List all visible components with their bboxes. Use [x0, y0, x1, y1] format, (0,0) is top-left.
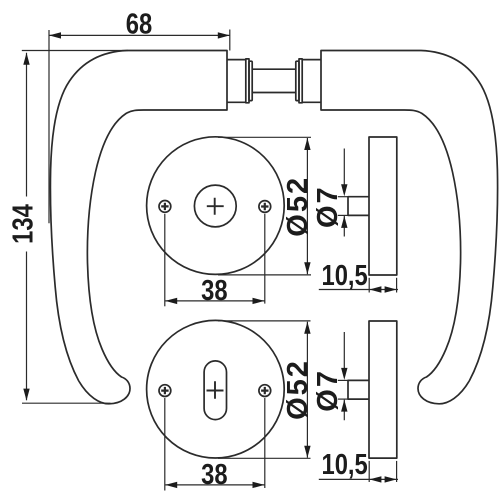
rose1 dia52 arrow down: [304, 262, 310, 274]
dim 134 extension bottom: [22, 402, 111, 404]
rose2 dia52 arrow up: [304, 322, 310, 334]
rose1 dim38 extension right: [264, 214, 266, 304]
dim 134 line: [26, 53, 28, 401]
side2 dia7 arrow up: [341, 400, 347, 412]
left neck cylinder: [227, 60, 246, 103]
svg-text:10,5: 10,5: [321, 448, 367, 481]
dim 134 extension top: [22, 50, 128, 52]
rose 2 keyhole cross: [207, 381, 224, 399]
side2 dim105 arrow left: [369, 476, 381, 482]
side2 dia7 arrow lines: [343, 332, 345, 420]
side2 dim105 arrow right: [385, 476, 397, 482]
rose 1 outer circle: [147, 137, 285, 275]
rose2 dia52 extension top: [218, 320, 311, 322]
dim 68 line: [49, 34, 230, 36]
rose2 dim38 arrow right: [253, 482, 265, 488]
rose2 dim38 line: [165, 484, 264, 486]
side view 2 neck stub: [348, 380, 369, 399]
rose2 dim38 arrow left: [165, 482, 177, 488]
side2 dim105 extension left: [368, 461, 370, 482]
rose 2 keyhole escutcheon: [204, 361, 226, 420]
rose1 dia52 extension top: [218, 136, 311, 138]
side2 dia7 arrow down: [341, 368, 347, 380]
side view 1 neck stub: [348, 197, 369, 216]
rose1 dia52 arrow up: [304, 138, 310, 150]
rose1 dim38 arrow right: [253, 298, 265, 304]
svg-text:68: 68: [126, 7, 152, 40]
side view 2 rose plate: [369, 321, 397, 458]
svg-text:10,5: 10,5: [321, 259, 367, 292]
rose 1 left screw: [159, 201, 171, 213]
rose2 dia52 line: [306, 322, 308, 458]
svg-text:38: 38: [201, 274, 227, 307]
rose1 dim38 line: [165, 300, 264, 302]
rose2 dia52 extension bottom: [218, 457, 311, 459]
side1 dia7 extension bottom: [338, 214, 348, 216]
side1 dim105 arrow left: [369, 286, 381, 292]
rose 1 spindle hole: [194, 185, 236, 227]
side2 dim105 line: [319, 478, 398, 480]
dim 134 arrow down: [23, 389, 29, 401]
rose 2 left screw: [159, 385, 171, 397]
side1 dim105 extension right: [396, 278, 398, 293]
rose2 dim38 extension left: [164, 398, 166, 491]
svg-text:38: 38: [201, 458, 227, 491]
dim 68 extension left: [48, 30, 50, 223]
spindle bar: [252, 69, 296, 92]
rose1 dim38 arrow left: [165, 298, 177, 304]
left collar ring 2: [249, 61, 252, 100]
rose1 dim38 extension left: [164, 214, 166, 306]
right lever (mirror of left): [296, 51, 498, 404]
side1 dia7 arrow lines: [343, 149, 345, 237]
side2 dia7 extension top: [338, 379, 348, 381]
svg-text:Ø52: Ø52: [282, 176, 314, 237]
dim 68 arrow right: [218, 32, 230, 38]
rose2 dim38 extension right: [264, 398, 266, 488]
svg-text:Ø52: Ø52: [282, 359, 314, 420]
rose1 dia52 line: [306, 138, 308, 274]
side1 dim105 extension left: [368, 278, 370, 293]
dim 68 extension right: [229, 30, 231, 51]
left lever grip outline: [50, 51, 252, 404]
side1 dim105 line: [319, 289, 398, 291]
rose 1 right screw: [259, 201, 271, 213]
side1 dia7 arrow down: [341, 184, 347, 196]
svg-text:Ø7: Ø7: [312, 369, 344, 412]
dim 68 arrow left: [49, 32, 61, 38]
svg-text:134: 134: [6, 204, 39, 244]
rose1 dia52 extension bottom: [218, 274, 311, 276]
side2 dia7 extension bottom: [338, 398, 348, 400]
svg-text:Ø7: Ø7: [312, 185, 344, 228]
side1 dim105 arrow right: [385, 286, 397, 292]
side2 dim105 extension right: [396, 461, 398, 482]
dim 134 arrow up: [23, 53, 29, 65]
rose 1 spindle hole cross: [207, 198, 224, 215]
rose 2 outer circle: [147, 320, 285, 458]
rose 2 right screw: [259, 385, 271, 397]
side view 1 rose plate: [369, 137, 397, 275]
side1 dia7 extension top: [338, 196, 348, 198]
left collar ring 1: [246, 59, 249, 103]
side1 dia7 arrow up: [341, 216, 347, 228]
rose2 dia52 arrow down: [304, 446, 310, 458]
